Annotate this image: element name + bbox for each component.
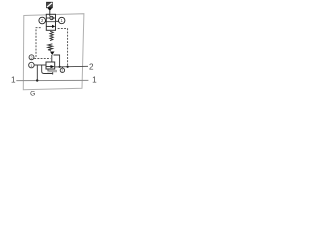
svg-text:1: 1 <box>92 75 97 84</box>
svg-text:1: 1 <box>11 75 16 84</box>
svg-text:2: 2 <box>61 69 63 73</box>
svg-text:G: G <box>30 91 35 98</box>
svg-text:1: 1 <box>30 64 32 68</box>
svg-text:2: 2 <box>89 63 94 72</box>
svg-text:2: 2 <box>30 56 32 60</box>
